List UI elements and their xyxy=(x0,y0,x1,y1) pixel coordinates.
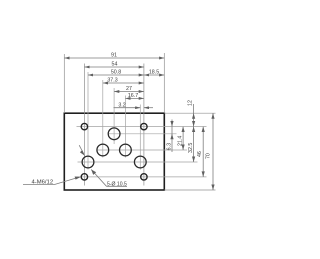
svg-text:16.7: 16.7 xyxy=(128,93,138,99)
port hole B xyxy=(120,144,132,156)
svg-text:3.2: 3.2 xyxy=(118,102,125,108)
dimension 46 vertical xyxy=(197,127,205,177)
centerline row T y=162 xyxy=(78,161,198,163)
extension line right edge x=164.3 xyxy=(163,53,165,113)
svg-text:6.3: 6.3 xyxy=(167,143,173,150)
svg-text:32.5: 32.5 xyxy=(188,143,194,153)
port hole P xyxy=(108,128,120,140)
centerline column P x=114.1 xyxy=(113,88,115,144)
bolt hole bottom-right xyxy=(141,174,147,180)
dimension 37.3 xyxy=(103,78,144,84)
dimension 27 xyxy=(114,86,144,92)
svg-text:46: 46 xyxy=(197,151,203,157)
bolt hole top-left xyxy=(81,123,87,129)
dimension 21.4 vertical xyxy=(177,127,184,151)
port hole A xyxy=(97,144,109,156)
dimension 54 xyxy=(84,62,143,68)
centerline row P y=133.8 xyxy=(108,133,177,135)
dimension 50.8 xyxy=(88,70,144,76)
dimension 32.5 vertical xyxy=(188,127,195,163)
centerline column T1 x=140.3 xyxy=(139,105,141,170)
svg-text:5-Ø 10.5: 5-Ø 10.5 xyxy=(107,181,127,187)
dimension 91 xyxy=(64,53,164,59)
centerline column bolt left x=84.4 xyxy=(83,64,85,186)
plate outline xyxy=(64,113,164,190)
svg-text:54: 54 xyxy=(112,62,118,68)
dimension 18.5 xyxy=(144,70,164,76)
leader 5-Ø10.5 lower segment xyxy=(91,170,106,187)
dimension 12 vertical xyxy=(188,100,196,126)
centerline column B x=125.4 xyxy=(124,96,126,158)
dimension 3.2 xyxy=(114,102,154,108)
centerline row bolts top y=126.6 xyxy=(77,126,207,128)
svg-text:91: 91 xyxy=(111,53,117,59)
bolt hole bottom-left xyxy=(81,174,87,180)
leader 4-M6/12 xyxy=(55,177,81,185)
centerline row bolts bottom y=176.9 xyxy=(77,176,207,178)
bolt hole top-right xyxy=(141,123,147,129)
svg-text:70: 70 xyxy=(206,153,212,159)
centerline column A x=102.8 xyxy=(102,80,104,158)
dimension 6.3 vertical xyxy=(167,120,174,153)
centerline column bolt right x=143.9 xyxy=(143,64,145,186)
label 5-Ø10.5 xyxy=(107,181,128,187)
extension line left edge x=64.3 xyxy=(63,54,65,113)
dimension 16.7 xyxy=(125,93,143,99)
extension row plate top y=113.2 xyxy=(164,112,215,114)
svg-text:27: 27 xyxy=(126,86,132,92)
dimension 70 vertical xyxy=(206,113,215,190)
svg-text:50.8: 50.8 xyxy=(111,70,121,76)
label 4-M6/12 xyxy=(23,180,55,186)
svg-text:12: 12 xyxy=(188,100,194,106)
port hole T1 xyxy=(134,156,146,168)
centerline row A B y=150 xyxy=(97,149,188,151)
svg-text:21.4: 21.4 xyxy=(177,136,183,146)
svg-text:37.3: 37.3 xyxy=(107,78,117,84)
centerline column T x=88 xyxy=(87,72,89,170)
leader 5-Ø10.5 upper segment xyxy=(79,145,84,155)
svg-text:4-M6/12: 4-M6/12 xyxy=(32,180,54,186)
port hole T xyxy=(82,156,94,168)
extension row plate bottom y=190 xyxy=(164,189,215,191)
svg-text:18.5: 18.5 xyxy=(149,70,159,76)
